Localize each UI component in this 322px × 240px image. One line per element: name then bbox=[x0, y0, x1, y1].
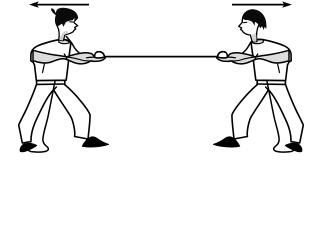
front shoe right bbox=[214, 137, 240, 147]
far shoulder line right bbox=[243, 37, 256, 53]
collar bbox=[58, 40, 70, 44]
right figure head (boy, facing left) bbox=[239, 9, 267, 42]
right figure body (mirror of left body) bbox=[214, 37, 304, 153]
hair right (short, shaggy) bbox=[242, 9, 266, 30]
hair with ponytail bbox=[51, 8, 78, 27]
arms (two extended, shaded) bbox=[33, 50, 105, 64]
arms right bbox=[217, 50, 289, 64]
waistband bbox=[37, 83, 65, 85]
neck and face right bbox=[239, 11, 262, 42]
torso / t-shirt bbox=[31, 39, 71, 80]
temple shading bbox=[67, 20, 75, 24]
rope tail right bbox=[255, 57, 295, 153]
rope (center segment between the two pullers) bbox=[100, 56, 222, 58]
pants right bbox=[232, 80, 303, 143]
fist gripping rope bbox=[87, 56, 98, 59]
torso right bbox=[251, 39, 291, 80]
crossed inner-leg line bbox=[53, 87, 57, 91]
crossed inner-leg line right bbox=[266, 87, 270, 91]
waistband right bbox=[257, 83, 285, 85]
eye bbox=[70, 21, 74, 23]
inner arm line bbox=[67, 57, 91, 61]
back shoe bbox=[20, 143, 37, 151]
inner arm line right bbox=[232, 57, 256, 61]
temple shading right bbox=[245, 20, 251, 24]
left figure (girl pulling, facing right) bbox=[19, 8, 109, 152]
force arrow left (pointing left) bbox=[29, 1, 89, 7]
neck and face bbox=[56, 10, 78, 41]
shirt crease right bbox=[278, 64, 280, 73]
back shoe right bbox=[285, 143, 302, 151]
collar right bbox=[252, 40, 264, 44]
neck shading bbox=[59, 31, 68, 41]
wrist crossing mark right bbox=[255, 54, 258, 58]
force arrow right (pointing right) bbox=[232, 1, 292, 7]
rope tail hanging from hands bbox=[27, 57, 67, 153]
far shoulder line bbox=[66, 37, 79, 53]
pants bbox=[19, 80, 90, 143]
eye right bbox=[243, 21, 246, 23]
fist right bbox=[225, 56, 236, 59]
wrist crossing mark bbox=[64, 54, 67, 58]
neck shading right bbox=[251, 33, 257, 42]
front shoe bbox=[82, 137, 108, 147]
shirt crease bbox=[43, 64, 45, 73]
